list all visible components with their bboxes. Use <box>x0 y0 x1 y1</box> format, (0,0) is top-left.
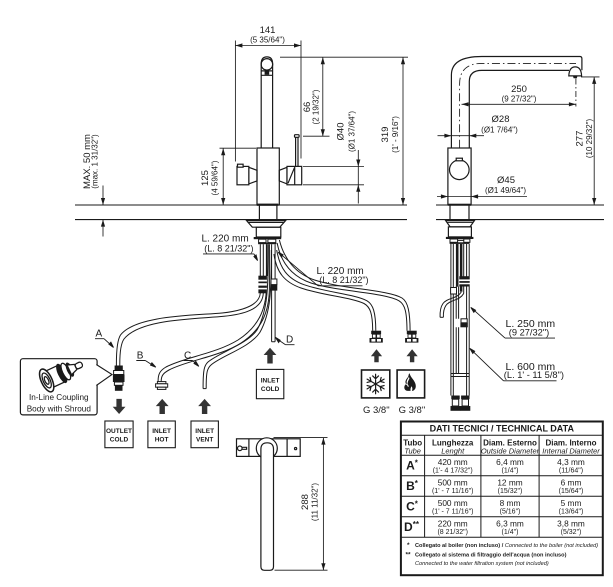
svg-text:D: D <box>286 334 293 345</box>
svg-text:277: 277 <box>574 131 585 147</box>
svg-text:COLD: COLD <box>261 386 280 393</box>
svg-text:OUTLET: OUTLET <box>106 428 132 435</box>
svg-text:Internal Diameter: Internal Diameter <box>542 446 600 455</box>
svg-text:500 mm: 500 mm <box>438 498 468 508</box>
svg-text:(8 21/32"): (8 21/32") <box>437 529 468 536</box>
svg-text:(11 11/32"): (11 11/32") <box>310 483 319 521</box>
svg-text:(Ø1 49/64"): (Ø1 49/64") <box>485 186 526 195</box>
svg-text:(Ø1 7/64"): (Ø1 7/64") <box>481 125 518 134</box>
svg-text:8 mm: 8 mm <box>500 498 521 508</box>
svg-text:250: 250 <box>511 84 527 95</box>
svg-text:Body with Shroud: Body with Shroud <box>27 404 92 413</box>
svg-text:500 mm: 500 mm <box>438 477 468 487</box>
svg-text:(1' - 9/16"): (1' - 9/16") <box>391 116 400 153</box>
svg-text:Ø28: Ø28 <box>492 114 510 125</box>
svg-text:Ø40: Ø40 <box>336 123 347 141</box>
svg-text:6,3 mm: 6,3 mm <box>496 518 524 528</box>
svg-text:DATI TECNICI / TECHNICAL DATA: DATI TECNICI / TECHNICAL DATA <box>430 424 575 434</box>
svg-text:(10 29/32"): (10 29/32") <box>585 119 594 159</box>
svg-text:Collegato al sistema di filtra: Collegato al sistema di filtraggio dell'… <box>415 553 567 559</box>
svg-text:(2 19/32"): (2 19/32") <box>311 89 320 124</box>
svg-text:HOT: HOT <box>155 437 169 444</box>
svg-text:C: C <box>184 350 191 361</box>
svg-text:B: B <box>137 350 144 361</box>
svg-text:A: A <box>96 329 103 340</box>
svg-text:(max. 1 31/32"): (max. 1 31/32") <box>91 134 100 189</box>
svg-text:COLD: COLD <box>110 437 129 444</box>
svg-text:Outside Diameter: Outside Diameter <box>481 446 540 455</box>
svg-text:12 mm: 12 mm <box>497 477 522 487</box>
svg-text:(1/4"): (1/4") <box>502 529 519 536</box>
svg-text:In-Line Coupling: In-Line Coupling <box>29 393 89 402</box>
svg-text:Collegato al boiler (non inclu: Collegato al boiler (non incluso) / Conn… <box>415 543 598 549</box>
svg-text:220 mm: 220 mm <box>438 518 468 528</box>
svg-text:(5/16"): (5/16") <box>500 509 521 516</box>
svg-text:(L. 8 21/32"): (L. 8 21/32") <box>204 244 253 254</box>
svg-text:125: 125 <box>200 170 211 186</box>
svg-text:INLET: INLET <box>195 428 214 435</box>
svg-text:(Ø1 37/64"): (Ø1 37/64") <box>347 111 356 152</box>
svg-text:(5 35/64"): (5 35/64") <box>250 35 285 44</box>
svg-text:(9 27/32"): (9 27/32") <box>509 328 550 338</box>
svg-text:(4 59/64"): (4 59/64") <box>210 160 219 195</box>
svg-text:4,3 mm: 4,3 mm <box>557 457 585 467</box>
svg-text:(15/64"): (15/64") <box>559 488 584 495</box>
svg-text:Lenght: Lenght <box>441 446 465 455</box>
svg-text:3,8 mm: 3,8 mm <box>557 518 585 528</box>
svg-text:(5/32"): (5/32") <box>561 529 582 536</box>
svg-text:(9 27/32"): (9 27/32") <box>502 94 537 103</box>
svg-text:(1'- 4 17/32"): (1'- 4 17/32") <box>433 468 473 475</box>
svg-text:INLET: INLET <box>261 378 280 385</box>
svg-text:**: ** <box>406 552 412 559</box>
svg-text:Ø45: Ø45 <box>497 175 515 186</box>
svg-text:Tube: Tube <box>404 446 421 455</box>
svg-text:(1/4"): (1/4") <box>502 468 519 475</box>
svg-text:(13/64"): (13/64") <box>559 509 584 516</box>
svg-text:Connected to the water filtrat: Connected to the water filtration system… <box>415 561 549 567</box>
svg-text:VENT: VENT <box>196 437 213 444</box>
svg-text:6,4 mm: 6,4 mm <box>496 457 524 467</box>
svg-text:(15/32"): (15/32") <box>498 488 523 495</box>
svg-text:(L. 1' - 11 5/8"): (L. 1' - 11 5/8") <box>504 370 564 380</box>
svg-text:(L. 8 21/32"): (L. 8 21/32") <box>319 275 368 285</box>
svg-text:5 mm: 5 mm <box>561 498 582 508</box>
svg-text:G 3/8": G 3/8" <box>399 405 426 416</box>
svg-text:319: 319 <box>380 127 391 143</box>
svg-text:G 3/8": G 3/8" <box>363 405 390 416</box>
svg-text:(11/64"): (11/64") <box>559 468 583 475</box>
svg-text:INLET: INLET <box>152 428 171 435</box>
svg-text:(1' - 7 11/16"): (1' - 7 11/16") <box>432 509 473 516</box>
svg-text:420 mm: 420 mm <box>438 457 468 467</box>
svg-text:6 mm: 6 mm <box>561 477 582 487</box>
svg-text:(1' - 7 11/16"): (1' - 7 11/16") <box>432 488 473 495</box>
